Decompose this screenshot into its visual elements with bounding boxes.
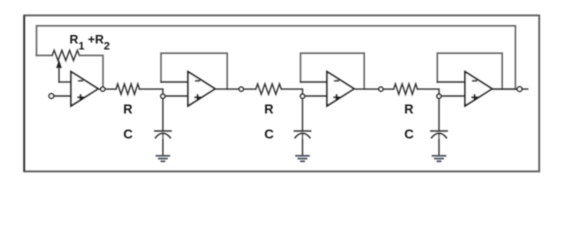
wire node to op-amp U2 non-inverting input [165, 95, 188, 97]
node op-amp U3 output terminal [379, 87, 383, 91]
op-amp U2 [188, 72, 215, 106]
wire output row stage 1 [106, 88, 117, 90]
capacitor C (stage 2) [294, 131, 310, 138]
wire node 3 to capacitor [438, 98, 440, 131]
wire op-amp U1 non-inverting input [54, 95, 71, 97]
svg-text:C: C [404, 126, 414, 141]
wire resistor to node 1 [140, 89, 163, 94]
capacitor C (stage 3) [431, 131, 447, 138]
svg-text:C: C [123, 126, 133, 141]
wire capacitor to ground (stage 2) [302, 134, 304, 155]
wire op-amp U3 inverting input [301, 81, 328, 83]
ground (stage 1) [156, 156, 171, 162]
wire op-amp U1 output [98, 88, 101, 90]
wire node to op-amp U4 non-inverting input [441, 95, 465, 97]
input terminal [49, 94, 54, 99]
wire output row stage 2 [244, 88, 256, 90]
op-amp U4 [465, 72, 492, 106]
wire op-amp U4 output to terminal [492, 88, 517, 90]
resistor R (stage 2) [256, 84, 281, 94]
wire op-amp U4 output [492, 88, 528, 90]
svg-text:R: R [264, 102, 273, 117]
potentiometer wiper arrow [56, 60, 62, 82]
svg-text:R: R [404, 102, 413, 117]
capacitor C (stage 1) [155, 131, 171, 138]
wire op-amp U2 feedback loop [161, 53, 227, 89]
ground (stage 3) [432, 156, 447, 162]
wire op-amp U4 feedback loop [437, 53, 502, 89]
wire capacitor to ground (stage 3) [438, 134, 440, 155]
wire op-amp U2 inverting input [161, 81, 188, 83]
node op-amp U1 output [101, 87, 105, 91]
node 1 (RC junction) [161, 94, 165, 98]
wire global feedback top [37, 26, 516, 89]
node 3 (RC junction) [437, 94, 441, 98]
op-amp U1 [71, 72, 98, 106]
resistor R (stage 3) [394, 84, 418, 94]
wire op-amp U4 inverting input [437, 81, 465, 83]
wire op-amp U1 inverting input [59, 81, 71, 83]
svg-text:C: C [264, 126, 274, 141]
wire op-amp U2 output [215, 88, 239, 90]
wire output row stage 3 [384, 88, 394, 90]
wire op-amp U3 output [354, 88, 379, 90]
output terminal [517, 87, 522, 92]
node op-amp U2 output terminal [239, 87, 243, 91]
wire capacitor to ground (stage 1) [162, 134, 164, 155]
ground (stage 2) [295, 156, 310, 162]
node 2 (RC junction) [300, 94, 304, 98]
wire resistor to node 3 [417, 89, 439, 94]
wire node 1 to capacitor [162, 98, 164, 131]
wire resistor to node 2 [281, 89, 302, 94]
svg-text:R: R [123, 102, 132, 117]
op-amp U3 [327, 72, 354, 106]
wire node to op-amp U3 non-inverting input [305, 95, 327, 97]
wire node 2 to capacitor [302, 98, 304, 131]
potentiometer R1+R2 [37, 50, 104, 87]
wire op-amp U3 feedback loop [301, 53, 365, 89]
resistor R (stage 1) [116, 84, 140, 94]
